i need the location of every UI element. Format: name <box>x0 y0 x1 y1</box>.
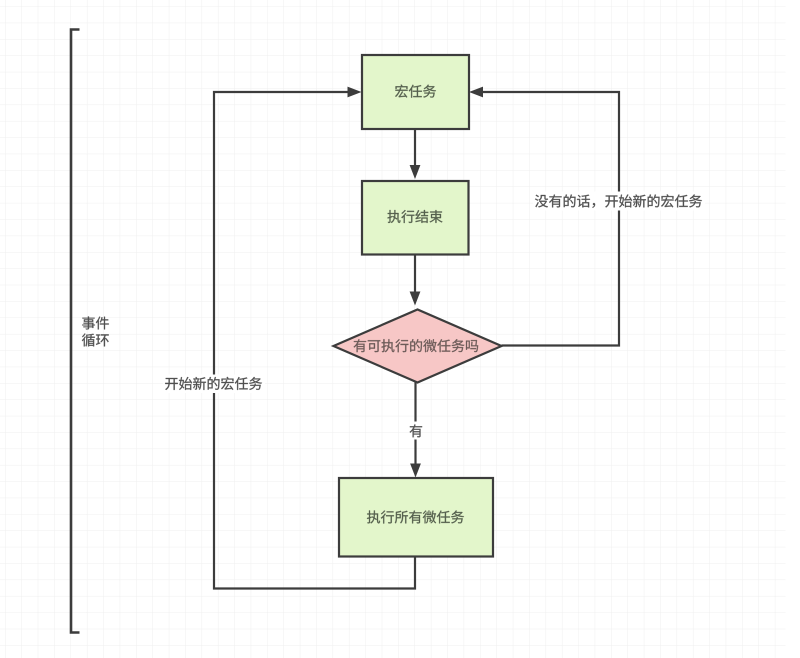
wire: right loop (diamond "no" branch back to 宏任务) <box>473 92 619 346</box>
arrow head into 宏任务 right side <box>469 87 483 98</box>
label 有 <box>410 424 423 437</box>
wire: bottom-left loop (执行所有微任务 back to 宏任务) <box>214 92 415 589</box>
label 没有的话，开始新的宏任务 (on right loop wire) <box>533 192 705 211</box>
arrow 宏任务 -> 执行结束 <box>410 130 421 180</box>
label 开始新的宏任务 (on left loop wire) <box>163 375 265 394</box>
diamond 有可执行的微任务吗 <box>334 310 502 383</box>
box 执行所有微任务 <box>339 478 493 557</box>
arrow 执行结束 -> diamond <box>410 255 421 306</box>
label 事件循环 <box>82 317 109 347</box>
arrow head into 宏任务 left side <box>348 87 362 98</box>
box 执行结束 <box>362 181 469 255</box>
arrow diamond -> 执行所有微任务 (labelled 有) <box>410 383 421 478</box>
box 宏任务 <box>362 55 469 129</box>
bracket: event-loop scope <box>71 30 80 633</box>
